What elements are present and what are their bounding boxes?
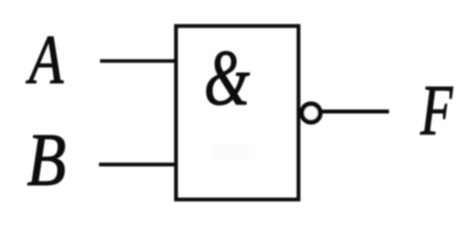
output inversion bubble (302, 104, 320, 122)
svg-text:&: & (204, 35, 250, 122)
svg-text:A: A (25, 21, 63, 98)
svg-text:F: F (420, 70, 453, 150)
output wire to F (322, 110, 389, 114)
input wire B (99, 163, 176, 167)
svg-text:B: B (27, 119, 66, 202)
faint scan smudge (211, 145, 255, 159)
nand gate U1 body (176, 26, 299, 200)
input wire A (100, 59, 176, 63)
